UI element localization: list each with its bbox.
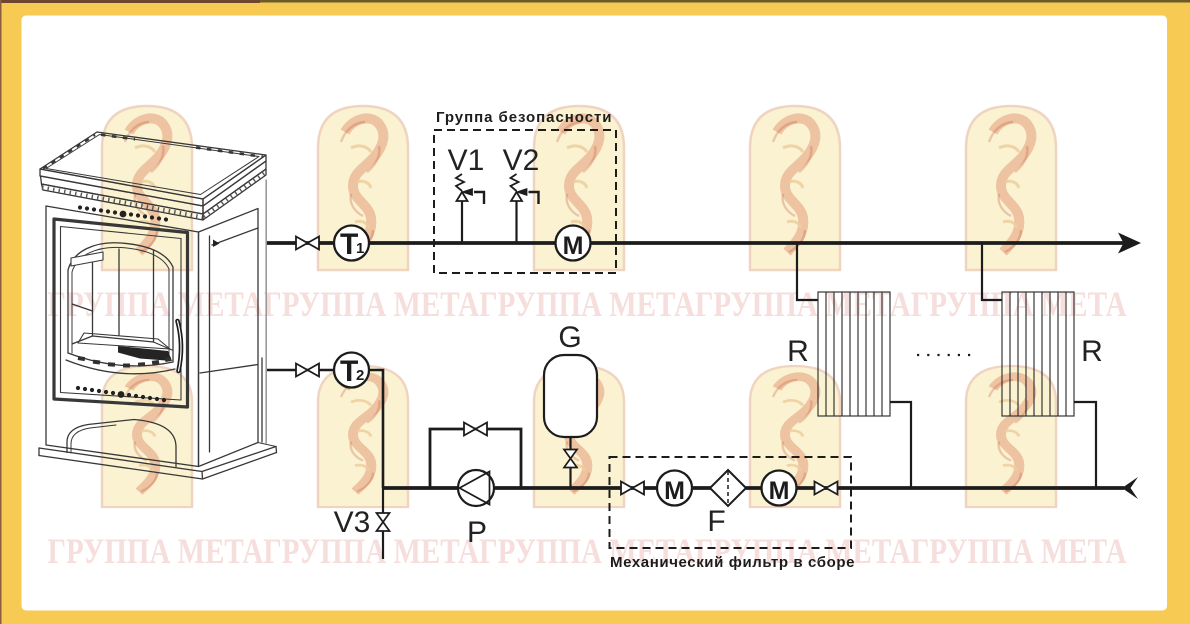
radiator 2 return xyxy=(1074,402,1096,487)
glass arch window xyxy=(68,243,173,362)
thermometer T2 xyxy=(334,353,369,388)
svg-text:M: M xyxy=(769,477,790,505)
dotted separator xyxy=(917,354,977,356)
side grey edge xyxy=(265,180,267,443)
motor valve M3 xyxy=(762,471,797,506)
T2 branch pipe xyxy=(267,370,384,488)
door frame thick xyxy=(54,219,188,407)
interior back corners xyxy=(92,256,94,336)
thermometer T1 xyxy=(334,226,369,261)
side face lower seam xyxy=(261,358,263,442)
svg-text:F: F xyxy=(707,505,725,538)
svg-text:R: R xyxy=(1081,335,1103,368)
filter F diamond xyxy=(710,470,746,506)
radiator 1 return xyxy=(890,402,911,487)
dots row 1 xyxy=(78,205,168,221)
dark left edge strip xyxy=(0,0,2,624)
baffle top xyxy=(71,252,103,266)
top slab rail ticks back edge xyxy=(101,135,135,140)
interior floor ledge xyxy=(78,333,170,349)
radiator drop 2 xyxy=(982,244,1002,300)
watermark arches row 1 xyxy=(102,106,192,270)
filter outlet valve xyxy=(815,482,838,495)
svg-text:V2: V2 xyxy=(503,144,540,177)
stove body side face xyxy=(199,209,259,467)
filter inlet valve xyxy=(621,482,644,495)
svg-text:Механический фильтр в сборе: Механический фильтр в сборе xyxy=(610,554,855,571)
svg-text:G: G xyxy=(558,321,581,354)
radiator drop 1 xyxy=(797,244,818,300)
expansion tank G xyxy=(544,355,597,437)
svg-text:R: R xyxy=(787,335,809,368)
base plinth xyxy=(39,447,276,472)
tank valve (vertical bowtie) xyxy=(564,450,577,468)
svg-text:V3: V3 xyxy=(334,506,371,539)
inlet valve top xyxy=(296,237,319,250)
safety valve V2 xyxy=(511,174,539,243)
motor valve M on supply xyxy=(556,226,591,261)
bottom arch niche xyxy=(67,420,176,467)
svg-text:ГРУППА МЕТАГРУППА МЕТАГРУППА М: ГРУППА МЕТАГРУППА МЕТАГРУППА МЕТАГРУППА … xyxy=(48,532,1127,572)
slab molding front band lines xyxy=(40,169,203,206)
filter dashed box xyxy=(610,457,852,548)
bypass loop xyxy=(430,429,521,487)
svg-text:1: 1 xyxy=(356,240,364,257)
bypass valve xyxy=(464,423,487,436)
V3 valve (vertical bowtie) xyxy=(377,513,390,531)
dots row 2 xyxy=(76,386,166,402)
supply pipe (top) xyxy=(267,241,1125,245)
interior floor lines xyxy=(72,304,93,311)
inlet valve bottom xyxy=(296,364,319,377)
svg-text:M: M xyxy=(563,232,584,260)
stove top slab top face xyxy=(40,132,266,199)
svg-text:P: P xyxy=(467,516,487,549)
pump P xyxy=(458,470,494,506)
drain stub with V3 xyxy=(382,488,384,515)
molding right hatch xyxy=(204,173,265,218)
dark top edge strip xyxy=(0,0,1190,3)
radiator 1 xyxy=(818,292,890,416)
handle xyxy=(178,321,182,371)
watermark arches row 2 xyxy=(102,366,192,507)
ember tiles xyxy=(78,356,172,367)
stove body front face xyxy=(46,206,199,467)
molding front hatch xyxy=(42,188,203,218)
side panel seam vertical xyxy=(209,236,211,452)
motor valve M2 xyxy=(657,471,692,506)
return arrow chevron xyxy=(1122,477,1138,499)
door latch xyxy=(213,240,220,248)
safety valve V1 xyxy=(456,174,484,243)
svg-text:V1: V1 xyxy=(448,144,485,177)
svg-text:2: 2 xyxy=(356,367,364,384)
tank stub xyxy=(569,437,571,451)
top slab rail ticks left edge xyxy=(43,135,95,169)
radiator 2 xyxy=(1002,292,1074,416)
side panel top diagonal xyxy=(212,228,258,245)
ember band xyxy=(68,353,173,366)
slab molding right band lines xyxy=(203,155,266,206)
side panel bottom diagonal xyxy=(200,365,258,374)
supply arrow head xyxy=(1118,233,1141,254)
return pipe (bottom) xyxy=(383,486,1124,490)
interior dark hearth shadow xyxy=(118,346,172,361)
svg-text:Группа безопасности: Группа безопасности xyxy=(436,109,612,126)
safety group dashed box xyxy=(434,130,616,273)
svg-text:M: M xyxy=(664,477,685,505)
